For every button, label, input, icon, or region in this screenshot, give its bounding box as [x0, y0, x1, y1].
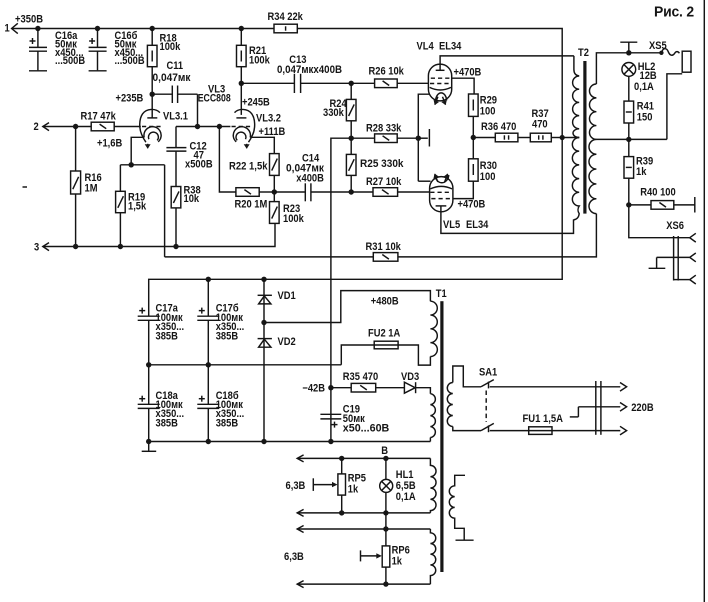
- svg-text:+1,6В: +1,6В: [97, 138, 122, 150]
- capacitor C17b: [197, 279, 244, 365]
- chassis stub at cathode node: [418, 129, 429, 147]
- svg-text:0,1А: 0,1А: [634, 81, 654, 93]
- diode VD2: [258, 336, 296, 348]
- switch SA1: [479, 367, 497, 433]
- svg-text:...500В: ...500В: [115, 55, 145, 67]
- wire R21 to VL3.2 anode: [240, 67, 242, 115]
- wire PSU bottom line: [149, 441, 431, 443]
- connector XS6: [657, 220, 696, 284]
- wire VL3.2 grid line: [176, 126, 230, 128]
- svg-text:R40 100: R40 100: [640, 187, 675, 199]
- svg-text:385В: 385В: [216, 417, 239, 429]
- svg-text:R34 22k: R34 22k: [268, 11, 303, 23]
- svg-text:XS6: XS6: [666, 220, 684, 232]
- wire VL5 cathode lead: [418, 180, 430, 182]
- lamp HL1: [380, 469, 416, 503]
- wire T2 secondary tap to XS5 sleeve: [596, 138, 667, 140]
- junction midline/C17b-C18b: [206, 362, 211, 367]
- junction h1top/HL1: [383, 456, 388, 461]
- node 3 input arrow: [34, 242, 49, 254]
- junction rail/R21: [239, 26, 244, 31]
- svg-text:470: 470: [532, 119, 548, 131]
- resistor R19: [116, 165, 147, 247]
- junction C11/grid line: [195, 124, 200, 129]
- svg-text:+470В: +470В: [458, 199, 486, 211]
- diode VD3: [401, 371, 430, 394]
- wire C11 down to VL3.2 grid line: [197, 94, 199, 126]
- chassis stub XS6 pin2: [649, 257, 666, 268]
- connector XS5: [649, 40, 691, 139]
- svg-text:R22 1,5k: R22 1,5k: [229, 161, 268, 173]
- svg-text:VL3.1: VL3.1: [163, 111, 188, 123]
- svg-text:R26 10k: R26 10k: [369, 66, 404, 78]
- resistor R37: [518, 108, 562, 142]
- wire tap to T2 primary: [562, 137, 579, 139]
- capacitor C11: [152, 60, 197, 103]
- svg-text:...500В: ...500В: [55, 55, 85, 67]
- junction input2/R16: [73, 124, 78, 129]
- wire T2 secondary top to XS5: [596, 53, 661, 84]
- scan speck: [23, 186, 28, 188]
- junction bottomline/VD2: [261, 439, 266, 444]
- resistor R34: [268, 11, 303, 33]
- wire R22 to node: [273, 175, 275, 201]
- svg-text:R27 10k: R27 10k: [366, 176, 401, 188]
- arrow 220V line3: [620, 426, 627, 435]
- svg-text:Рис. 2: Рис. 2: [654, 5, 694, 21]
- svg-text:х50...60В: х50...60В: [343, 423, 390, 435]
- junction R39/R40/XS6: [626, 202, 631, 207]
- capacitor C16a: [29, 29, 85, 71]
- wire midpoint to T1 HV winding top: [264, 291, 430, 323]
- svg-text:VL4: VL4: [417, 41, 434, 53]
- svg-text:0,047мкх400В: 0,047мкх400В: [277, 64, 342, 76]
- svg-text:FU1 1,5А: FU1 1,5А: [523, 413, 564, 425]
- pentode VL4: [417, 41, 462, 105]
- svg-text:100k: 100k: [283, 213, 304, 225]
- svg-text:R20 1М: R20 1М: [235, 199, 268, 211]
- triode VL3.1: [140, 109, 188, 148]
- svg-text:EL34: EL34: [466, 219, 488, 231]
- node 1 input arrow: [5, 23, 18, 35]
- junction C14/R25/R27: [349, 189, 354, 194]
- capacitor C17a: [138, 303, 184, 365]
- svg-text:Т2: Т2: [578, 47, 589, 59]
- svg-text:х400В: х400В: [296, 173, 324, 185]
- junction rail/C16b: [95, 26, 100, 31]
- svg-text:ЕСС808: ЕСС808: [198, 93, 231, 105]
- svg-text:10k: 10k: [184, 193, 200, 205]
- svg-text:+235В: +235В: [116, 93, 144, 105]
- capacitor C18a: [138, 365, 184, 442]
- svg-text:330k: 330k: [323, 107, 344, 119]
- junction tap/R41/R39/XS5 sleeve: [626, 137, 631, 142]
- shield winding T1: [449, 475, 473, 540]
- svg-text:1: 1: [5, 23, 10, 35]
- resistor R17: [81, 111, 116, 131]
- heater line 2 top: [297, 526, 430, 533]
- svg-text:1,5k: 1,5k: [128, 200, 146, 212]
- capacitor C12: [166, 127, 213, 187]
- junction rail/C16a: [35, 26, 40, 31]
- primary winding T1: [447, 366, 481, 431]
- junction R20 drop/grid line: [217, 124, 222, 129]
- junction h1top/RP5: [339, 456, 344, 461]
- capacitor C14: [274, 152, 351, 201]
- svg-text:х500В: х500В: [185, 159, 213, 171]
- svg-text:100: 100: [480, 171, 496, 183]
- capacitor C16b: [89, 29, 145, 71]
- resistor R31 feedback: [165, 241, 401, 261]
- junction -42V node: [328, 385, 333, 390]
- wire +350V top rail left of R34: [12, 28, 274, 30]
- capacitor C18b: [197, 365, 244, 442]
- wire VL3.1 cathode to node: [131, 137, 144, 165]
- resistor R24: [323, 83, 356, 138]
- scan band left: [0, 295, 5, 602]
- svg-text:100k: 100k: [160, 41, 181, 53]
- wire node to XS6 pin1: [629, 205, 690, 238]
- svg-text:+480В: +480В: [371, 296, 399, 308]
- scan edge right: [703, 0, 705, 300]
- resistor R27: [351, 176, 430, 196]
- plug connector bars: [596, 381, 601, 435]
- chassis tick under C16b: [89, 70, 107, 72]
- arrow 220V line2: [620, 403, 627, 412]
- junction VL3.1 cathode node: [129, 162, 134, 167]
- resistor R23: [270, 202, 304, 225]
- svg-text:6,3В: 6,3В: [286, 480, 306, 492]
- arrow 220V line1: [620, 383, 627, 392]
- resistor R38: [171, 184, 201, 246]
- resistor R21: [237, 29, 270, 67]
- junction bottomline/C18a: [146, 439, 151, 444]
- junction cathode mid node: [416, 136, 421, 141]
- svg-text:В: В: [381, 445, 388, 457]
- svg-text:385В: 385В: [216, 330, 239, 342]
- junction R29/R30/R36: [471, 135, 476, 140]
- pentode VL5: [430, 174, 489, 231]
- junction C13/R26/R24: [349, 81, 354, 86]
- svg-text:R17 47k: R17 47k: [81, 111, 116, 123]
- capacitor C13: [241, 54, 351, 93]
- junction 3rail/R38: [173, 244, 178, 249]
- svg-text:R25 330k: R25 330k: [360, 158, 404, 170]
- wire VL4 anode to T2 primary top: [440, 56, 574, 70]
- svg-text:100k: 100k: [249, 54, 270, 66]
- junction topline/C17b: [206, 277, 211, 282]
- resistor R25: [346, 138, 403, 192]
- resistor R40: [629, 187, 695, 213]
- resistor R16: [71, 127, 102, 247]
- svg-text:Т1: Т1: [436, 288, 447, 300]
- svg-text:2: 2: [34, 121, 39, 133]
- wire B vertical top: [385, 458, 387, 479]
- resistor R18: [147, 29, 180, 67]
- junction 3rail/R16: [73, 244, 78, 249]
- junction R21/C13/VL3.2 anode: [239, 81, 244, 86]
- resistor R26: [351, 66, 428, 88]
- junction h2top/B: [383, 526, 388, 531]
- wire VL4 screen to R29: [452, 78, 474, 94]
- svg-text:+111В: +111В: [259, 126, 286, 138]
- svg-text:R36 470: R36 470: [481, 121, 516, 133]
- lamp HL2: [622, 61, 657, 93]
- wire R31 to T2 secondary bottom: [398, 214, 597, 257]
- junction VD1/VD2 midpoint: [261, 320, 266, 325]
- svg-text:1k: 1k: [348, 484, 358, 496]
- triode VL3.2: [198, 83, 286, 148]
- resistor R36: [473, 121, 518, 142]
- wire VL4 cathode: [418, 94, 429, 181]
- junction bottomline/C19: [328, 439, 333, 444]
- resistor R20: [219, 127, 274, 211]
- svg-text:385В: 385В: [156, 330, 179, 342]
- wire R17 to VL3.1 grid: [114, 126, 141, 128]
- potentiometer RP5: [313, 458, 366, 513]
- svg-text:3: 3: [34, 242, 39, 254]
- transformer T1: [430, 288, 446, 584]
- wire B vertical bottom: [385, 567, 387, 584]
- svg-text:1k: 1k: [636, 166, 646, 178]
- wire feedback drop to R31 line: [164, 165, 166, 257]
- svg-text:R31 10k: R31 10k: [366, 241, 401, 253]
- svg-text:FU2 1А: FU2 1А: [368, 328, 401, 340]
- wire PSU mid line: [149, 364, 342, 366]
- svg-text:0,047мк: 0,047мк: [153, 72, 192, 84]
- svg-text:R28 33k: R28 33k: [366, 122, 401, 134]
- svg-text:+470В: +470В: [454, 66, 482, 78]
- svg-text:VD1: VD1: [278, 290, 296, 302]
- junction h1bot/RP5: [339, 510, 344, 515]
- svg-text:12В: 12В: [640, 70, 658, 82]
- heater line 2 bottom: [297, 581, 430, 588]
- resistor R22: [229, 154, 279, 176]
- junction h1bot/HL1: [383, 510, 388, 515]
- resistor R28: [351, 122, 418, 142]
- wire R30 to VL5 screen: [453, 181, 474, 198]
- heater line 1 bottom: [297, 509, 430, 516]
- potentiometer RP6: [361, 544, 410, 567]
- resistor R39: [624, 139, 653, 205]
- wire VL3.2 cathode to R22: [250, 137, 274, 153]
- wire -42V rail up to bias node: [331, 138, 351, 441]
- resistor R29: [469, 94, 498, 138]
- wire input2 to R17: [43, 126, 91, 128]
- svg-text:150: 150: [637, 111, 653, 123]
- junction +235V node (R18/C11/anode): [150, 92, 155, 97]
- svg-text:0,1А: 0,1А: [396, 491, 416, 503]
- fuse FU1: [490, 413, 621, 435]
- resistor R30: [469, 138, 498, 183]
- svg-text:6,3В: 6,3В: [284, 551, 304, 563]
- svg-text:VL5: VL5: [443, 219, 460, 231]
- fuse FU2: [341, 328, 430, 365]
- junction bottomline/C18b: [206, 439, 211, 444]
- resistor R35: [331, 371, 405, 392]
- svg-text:+350В: +350В: [15, 14, 43, 26]
- svg-text:XS5: XS5: [649, 40, 667, 52]
- svg-text:1k: 1k: [392, 556, 402, 568]
- wire +350V rail right of R34 and B+ feed down to PSU: [149, 29, 563, 316]
- junction topline/VD1: [261, 277, 266, 282]
- capacitor C19: [320, 404, 389, 435]
- wire R18 to VL3.1 anode: [151, 67, 153, 118]
- junction B+ / T2 center tap: [560, 135, 565, 140]
- wire cathode node horizontal: [120, 164, 164, 166]
- junction 3rail/R19: [118, 244, 123, 249]
- chassis tick under C16a: [29, 70, 47, 72]
- svg-text:R35 470: R35 470: [343, 371, 378, 383]
- svg-text:385В: 385В: [156, 417, 179, 429]
- svg-text:+245В: +245В: [242, 96, 270, 108]
- svg-text:EL34: EL34: [439, 41, 461, 53]
- junction h2bot/B: [383, 581, 388, 586]
- wire VL5 anode to T2 primary bottom: [441, 206, 574, 234]
- svg-text:VL3.2: VL3.2: [256, 112, 281, 124]
- svg-text:VD2: VD2: [278, 336, 296, 348]
- svg-text:SA1: SA1: [479, 367, 497, 379]
- wire plug middle pin: [570, 407, 621, 417]
- junction bias node R24/R25/R28: [349, 136, 354, 141]
- junction rail/R18: [150, 26, 155, 31]
- wire input3 rail to R23: [43, 223, 275, 246]
- svg-text:С11: С11: [167, 60, 184, 72]
- wire SA1 top pole to plug: [490, 386, 621, 388]
- svg-text:−42В: −42В: [302, 382, 325, 394]
- svg-text:RP6: RP6: [392, 544, 410, 556]
- ground chassis symbol: [142, 442, 157, 452]
- junction midline/C17a-C18a: [146, 362, 151, 367]
- heater line 1 top: [297, 455, 430, 462]
- wire VD string vertical: [263, 279, 265, 441]
- svg-text:100: 100: [480, 106, 496, 118]
- svg-text:220В: 220В: [631, 402, 654, 414]
- diode VD1: [258, 290, 296, 304]
- resistor R41: [624, 76, 654, 139]
- junction R20/R22/R23/C14: [272, 189, 277, 194]
- transformer T2: [572, 47, 596, 220]
- svg-text:1М: 1М: [85, 183, 98, 195]
- junction XS5 node: [626, 50, 631, 55]
- wire B vertical mid: [385, 492, 387, 546]
- chassis bar above XS5 node: [620, 42, 637, 53]
- node 2 input arrow: [34, 121, 50, 133]
